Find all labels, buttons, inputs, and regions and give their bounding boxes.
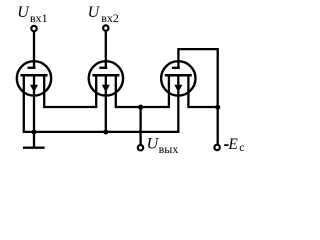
label -Ec xyxy=(224,144,228,146)
svg-text:вх1: вх1 xyxy=(30,11,48,25)
wire output Uvyh vertical xyxy=(139,107,141,145)
transistor VT1 channel xyxy=(21,74,48,77)
svg-text:с: с xyxy=(239,142,244,154)
junction node VT3 right on -Ec rail xyxy=(215,105,220,110)
wire bottom ground bus xyxy=(24,131,179,133)
wire chain VT2.right to VT3.left (output node) xyxy=(116,106,169,108)
transistor VT3 channel xyxy=(165,74,192,77)
transistor VT2 substrate lead with arrow down to bus xyxy=(105,75,107,85)
transistor VT2 gate lead wire from input terminal xyxy=(105,32,107,69)
transistor VT1 right tick wire down to chain xyxy=(43,75,45,108)
transistor VT2 left tick wire down to chain xyxy=(95,75,97,108)
terminal Uvx1 xyxy=(31,26,36,31)
wire -Ec rail vertical xyxy=(217,48,219,144)
terminal Uvx2 xyxy=(103,25,108,30)
transistor VT1 left tick wire down to ground bus xyxy=(23,75,25,133)
transistor VT3 gate electrode xyxy=(172,67,180,69)
transistor VT1 gate electrode xyxy=(28,67,36,69)
transistor VT2 channel xyxy=(92,74,119,77)
transistor VT3 substrate lead with arrow down to bus xyxy=(177,75,179,85)
svg-text:U: U xyxy=(17,4,30,21)
transistor VT3 right tick wire down to chain xyxy=(187,75,189,108)
ground symbol bar xyxy=(23,146,45,148)
junction node output on chain xyxy=(138,105,143,110)
junction node VT1 substrate on bus xyxy=(31,129,36,134)
transistor VT3 gate lead wire up to loop xyxy=(177,48,179,69)
transistor VT1 substrate lead with arrow xyxy=(33,75,35,85)
transistor VT3 envelope xyxy=(161,61,195,95)
transistor VT1 envelope xyxy=(17,61,51,95)
transistor VT3 left tick wire down to chain xyxy=(168,75,170,108)
junction node VT2 substrate on bus xyxy=(103,129,108,134)
ground symbol stub xyxy=(33,132,35,147)
transistor VT2 gate electrode xyxy=(99,67,107,69)
wire chain VT3.right to -Ec rail xyxy=(188,106,217,108)
terminal -Ec xyxy=(214,145,219,150)
wire gate loop top of VT3 xyxy=(178,48,217,50)
svg-text:вх2: вх2 xyxy=(101,11,119,25)
transistor VT2 right tick wire down to chain xyxy=(115,75,117,108)
svg-text:E: E xyxy=(227,136,238,153)
transistor VT2 envelope xyxy=(89,61,123,95)
svg-text:U: U xyxy=(88,4,101,21)
wire chain VT1.right to VT2.left xyxy=(44,106,96,108)
svg-text:вых: вых xyxy=(159,142,179,156)
terminal Uvyh xyxy=(138,145,143,150)
transistor VT1 gate lead wire from input terminal xyxy=(33,32,35,69)
